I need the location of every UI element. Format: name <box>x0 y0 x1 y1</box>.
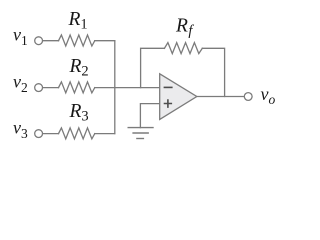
node vo output terminal <box>244 93 252 101</box>
svg-text:v1: v1 <box>13 25 28 49</box>
op-amp inverting input minus sign <box>164 86 173 88</box>
svg-text:Rf: Rf <box>175 16 194 40</box>
svg-text:R3: R3 <box>69 101 89 125</box>
op-amp U1 <box>160 74 197 120</box>
wire R3 to junction <box>95 133 115 135</box>
node v2 input terminal <box>35 84 43 92</box>
ground <box>128 128 153 139</box>
wire op-amp noninverting input from ground <box>140 104 159 128</box>
resistor R3 <box>59 128 95 139</box>
wire R2 to op-amp inverting input <box>95 87 160 89</box>
op-amp noninverting input plus sign <box>164 99 172 108</box>
wire v1 terminal to R1 <box>43 40 59 42</box>
resistor R1 <box>59 35 95 46</box>
resistor R2 <box>59 82 95 93</box>
wire feedback tap up from inverting input <box>141 48 165 87</box>
svg-text:vo: vo <box>261 84 276 107</box>
svg-text:v3: v3 <box>13 118 28 142</box>
node v3 input terminal <box>35 130 43 138</box>
wire junction vertical bus <box>114 41 116 134</box>
svg-text:R2: R2 <box>69 56 89 80</box>
wire v3 terminal to R3 <box>43 133 59 135</box>
wire Rf to output node <box>202 48 224 96</box>
wire R1 to junction <box>95 40 115 42</box>
svg-text:v2: v2 <box>13 72 28 96</box>
wire op-amp output <box>197 96 244 98</box>
resistor Rf <box>164 43 202 54</box>
svg-text:R1: R1 <box>68 9 88 33</box>
node v1 input terminal <box>35 37 43 45</box>
wire v2 terminal to R2 <box>43 87 59 89</box>
